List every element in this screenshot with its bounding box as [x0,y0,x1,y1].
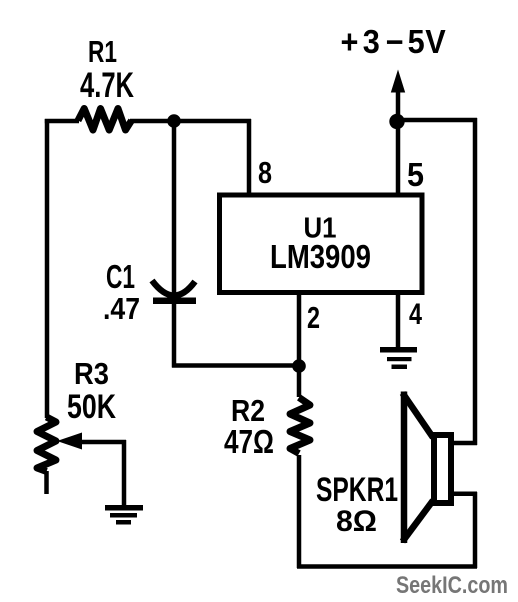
wire R2 bottom [297,455,302,568]
resistor R1 [78,109,132,131]
svg-text:50K: 50K [67,388,116,426]
wire bottom rail [297,564,477,569]
supply arrow shaft [396,88,401,122]
svg-text:C1: C1 [106,258,135,295]
wire top rail left segment [45,119,79,124]
wire pin 5 vertical [396,121,401,196]
svg-text:8Ω: 8Ω [336,505,377,538]
node junction supply [389,114,404,129]
wire R1 to pin 8 corner [130,119,251,124]
wire wiper vertical [122,440,127,507]
op-amp U1 box [220,195,423,293]
wire wiper shaft [80,440,126,445]
wire pin 4 vertical [396,291,401,350]
svg-text:SPKR1: SPKR1 [316,471,398,509]
svg-text:4.7K: 4.7K [80,66,134,105]
svg-text:47Ω: 47Ω [224,423,274,460]
R3 wiper arrow head [57,433,82,450]
svg-text:+3−5V: +3−5V [340,23,446,60]
wire pin 2 vertical [297,291,302,397]
potentiometer R3 [37,417,56,472]
svg-text:R1: R1 [88,34,117,69]
wire C1 bottom [172,304,177,368]
svg-text:SeekIC.com: SeekIC.com [396,572,508,599]
wire right vertical upper [473,118,478,445]
svg-text:LM3909: LM3909 [270,238,371,275]
svg-text:R3: R3 [74,356,109,391]
capacitor C1 [152,281,196,305]
svg-text:.47: .47 [103,291,140,326]
wire right vertical lower [473,492,478,568]
svg-text:4: 4 [409,298,422,331]
wire R3 bottom stub [44,471,49,494]
wire left vertical [45,119,50,418]
supply arrow head [391,70,405,93]
wire speaker bottom stub [453,492,477,497]
node junction pin2/R2 [292,359,306,373]
svg-text:2: 2 [307,300,320,335]
wire pin 8 vertical [247,119,252,196]
wire C1 top [172,121,177,297]
ground R3 wiper [105,505,143,525]
node junction R1/C1 [167,114,181,128]
wire C1 to pin 2 node [172,363,299,368]
svg-text:8: 8 [258,155,272,190]
wire top rail right segment [396,118,477,123]
ground pin 4 [380,347,417,369]
svg-text:5: 5 [407,156,424,193]
resistor R2 [290,398,310,454]
speaker SPKR1 [403,392,452,544]
wire speaker top stub [453,441,477,446]
